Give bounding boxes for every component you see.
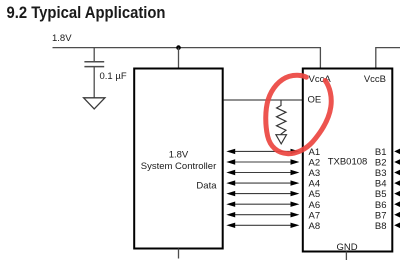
- svg-text:B7: B7: [375, 210, 387, 221]
- arrowhead B2 bus to off-page: [394, 159, 400, 165]
- svg-text:B3: B3: [375, 168, 387, 179]
- svg-text:1.8V: 1.8V: [52, 33, 72, 44]
- wire bidirectional data arrow A1: [226, 149, 299, 154]
- capacitor C1 0.1 uF: [84, 48, 104, 98]
- node junction on rail: [176, 45, 181, 50]
- wire rail to VccA pin: [319, 48, 321, 69]
- wire bidirectional data arrow A2: [226, 159, 299, 164]
- svg-text:A3: A3: [309, 168, 321, 179]
- svg-text:A6: A6: [309, 200, 321, 211]
- arrowhead B4 bus to off-page: [394, 180, 400, 186]
- svg-text:GND: GND: [336, 242, 357, 253]
- svg-text:B8: B8: [375, 221, 387, 232]
- wire GND pin: [345, 252, 347, 260]
- svg-text:B4: B4: [375, 179, 387, 190]
- arrowhead B1 bus to off-page: [394, 148, 400, 154]
- svg-text:A8: A8: [309, 221, 321, 232]
- wire bidirectional data arrow A5: [226, 191, 299, 196]
- svg-text:Data: Data: [196, 180, 217, 191]
- svg-text:0.1 µF: 0.1 µF: [100, 71, 127, 82]
- svg-text:A4: A4: [309, 179, 321, 190]
- pins A1-A8: [309, 147, 321, 232]
- svg-text:B6: B6: [375, 200, 387, 211]
- wire OE from controller: [224, 99, 303, 101]
- svg-text:A2: A2: [309, 158, 321, 169]
- wire VccB supply from right: [376, 48, 400, 69]
- red annotation circle around OE pulldown: [266, 75, 331, 153]
- svg-text:1.8V: 1.8V: [169, 150, 189, 161]
- resistor R1 pulldown on OE: [277, 100, 287, 134]
- wire bidirectional data arrow A8: [226, 223, 299, 228]
- wire controller bottom pin: [178, 249, 180, 259]
- svg-text:B5: B5: [375, 189, 387, 200]
- svg-text:A7: A7: [309, 210, 321, 221]
- wire bidirectional data arrow A7: [226, 212, 299, 217]
- svg-text:B1: B1: [375, 147, 387, 158]
- wire bidirectional data arrow A6: [226, 202, 299, 207]
- system controller box U1: [134, 69, 223, 249]
- arrowhead B8 bus to off-page: [394, 222, 400, 228]
- svg-text:9.2 Typical Application: 9.2 Typical Application: [7, 4, 166, 22]
- ground symbol under capacitor: [84, 98, 105, 109]
- svg-text:VccB: VccB: [364, 74, 386, 85]
- svg-text:TXB0108: TXB0108: [328, 157, 368, 168]
- wire 1.8V rail: [53, 47, 322, 49]
- svg-text:OE: OE: [308, 95, 322, 106]
- svg-text:System Controller: System Controller: [141, 161, 217, 172]
- svg-text:A1: A1: [309, 147, 321, 158]
- arrowhead B3 bus to off-page: [394, 169, 400, 175]
- TXB0108 box U2: [303, 69, 393, 252]
- svg-text:A5: A5: [309, 189, 321, 200]
- arrowhead B7 bus to off-page: [394, 212, 400, 218]
- pins B1-B8: [375, 147, 387, 232]
- wire rail to controller Vcc: [178, 48, 180, 69]
- ground symbol under resistor: [276, 135, 287, 144]
- svg-text:B2: B2: [375, 158, 387, 169]
- wire bidirectional data arrow A4: [226, 180, 299, 185]
- arrowhead B5 bus to off-page: [394, 191, 400, 197]
- wire bidirectional data arrow A3: [226, 170, 299, 175]
- arrowhead B6 bus to off-page: [394, 201, 400, 207]
